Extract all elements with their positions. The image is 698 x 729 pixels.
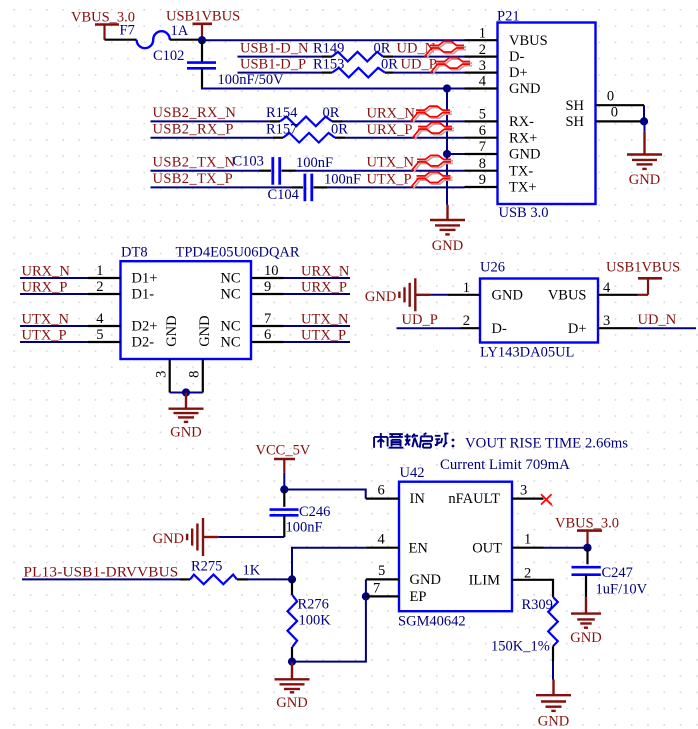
resistor R275	[190, 575, 237, 585]
svg-text:R276: R276	[298, 597, 329, 613]
svg-text:RX+: RX+	[509, 130, 537, 146]
resistor R149	[332, 52, 383, 62]
svg-text:3: 3	[154, 371, 170, 378]
svg-text:UTX_N: UTX_N	[301, 311, 349, 327]
P21 pin 8 TX-	[465, 156, 534, 179]
svg-text:5: 5	[378, 563, 385, 579]
svg-text:4: 4	[96, 311, 104, 327]
wire VCC_5V down to junction	[283, 473, 285, 490]
fuse F7	[137, 31, 170, 48]
wire UD_P to U26 pin 2	[397, 327, 461, 329]
svg-text:USB2_TX_P: USB2_TX_P	[153, 171, 234, 187]
svg-text:10: 10	[264, 263, 279, 279]
junction VBUS output node	[583, 544, 591, 552]
power port VBUS_3.0	[71, 10, 135, 40]
svg-text:D2+: D2+	[132, 319, 158, 335]
svg-text:R153: R153	[313, 56, 344, 72]
DT8 pin 8	[187, 359, 203, 393]
svg-text:F7: F7	[120, 23, 135, 39]
svg-text:R149: R149	[313, 40, 344, 56]
power port USB1VBUS	[166, 8, 240, 40]
svg-text:7: 7	[373, 580, 380, 596]
P21 pin 1 VBUS	[465, 25, 548, 48]
DT8 pin 7 NC	[220, 311, 283, 335]
svg-text:URX_P: URX_P	[367, 122, 413, 138]
svg-text:4: 4	[603, 280, 611, 296]
svg-text:C103: C103	[233, 154, 264, 170]
svg-text:2: 2	[479, 42, 486, 58]
svg-text:9: 9	[479, 172, 486, 188]
svg-text:9: 9	[264, 279, 271, 295]
U42 pin 5 GND	[366, 563, 441, 588]
ground GND at C247	[570, 597, 601, 646]
svg-text:nFAULT: nFAULT	[448, 491, 500, 507]
svg-text:GND: GND	[164, 315, 180, 346]
wire R276 bottom to U42 pin 7	[292, 596, 366, 661]
svg-text:GND: GND	[410, 572, 441, 588]
svg-text:0R: 0R	[331, 122, 348, 138]
svg-text:GND: GND	[509, 81, 540, 97]
capacitor C102 pins	[201, 40, 203, 62]
resistor R309	[548, 597, 558, 646]
svg-text:D-: D-	[492, 321, 507, 337]
U42 pin 6 IN	[366, 482, 426, 507]
svg-text:NC: NC	[220, 335, 240, 351]
wire USB1-D_P row	[238, 72, 323, 74]
svg-text:6: 6	[378, 482, 385, 498]
svg-text:NC: NC	[220, 271, 240, 287]
capacitor C247	[572, 548, 601, 597]
P21 pin 4 GND	[465, 74, 541, 97]
svg-text:7: 7	[264, 311, 271, 327]
svg-text:1uF/10V: 1uF/10V	[596, 582, 648, 598]
svg-text:GND: GND	[509, 147, 540, 163]
wire URX_P to DT8 pin 2	[20, 293, 88, 295]
svg-text:GND: GND	[365, 289, 396, 305]
wire DT8 pin 9 to URX_P	[284, 293, 351, 295]
svg-text:2: 2	[463, 313, 470, 329]
svg-text:U42: U42	[400, 465, 425, 481]
svg-text:GND: GND	[629, 172, 660, 188]
junction VCC node	[280, 485, 288, 493]
svg-text:3: 3	[603, 313, 610, 329]
junction EP pin	[362, 592, 370, 600]
svg-text:0R: 0R	[381, 56, 398, 72]
U42 pin 3 nFAULT	[448, 482, 543, 507]
svg-text:R275: R275	[191, 559, 222, 575]
wire PL13-USB1-DRVVBUS to R275	[22, 578, 180, 580]
P21 pin 3 D+	[465, 58, 528, 81]
P21 pin SH (bottom)	[565, 105, 644, 130]
svg-text:UTX_P: UTX_P	[367, 171, 412, 187]
svg-text:UD_P: UD_P	[401, 56, 437, 72]
svg-text:RX-: RX-	[509, 114, 534, 130]
svg-text:100K: 100K	[299, 613, 332, 629]
wire URX_N to DT8 pin 1	[20, 277, 88, 279]
wire R149 to P21 pin 2	[393, 56, 465, 58]
svg-text:VBUS_3.0: VBUS_3.0	[555, 515, 619, 531]
svg-text:Current Limit 709mA: Current Limit 709mA	[440, 457, 570, 473]
svg-text:1A: 1A	[171, 23, 189, 39]
IC U26 LY143DA05UL	[480, 279, 598, 343]
svg-text:URX_N: URX_N	[301, 263, 350, 279]
differential pair directive UD_P	[431, 58, 473, 75]
note: soft start annotation	[374, 433, 628, 451]
wire C246 to GND	[218, 536, 284, 538]
svg-text:0: 0	[607, 88, 614, 104]
capacitor C103	[273, 157, 280, 185]
power port VBUS_3.0 (output)	[555, 515, 619, 547]
wire GND to U26 pin 1	[431, 294, 448, 296]
wire USB2_TX_N row	[151, 170, 260, 172]
svg-text:8: 8	[479, 156, 486, 172]
svg-text:C102: C102	[153, 48, 184, 64]
differential pair directive URX_P	[413, 123, 455, 140]
svg-text:GND: GND	[276, 695, 307, 711]
IC U42 SGM40642	[399, 482, 512, 612]
P21 pin 5 RX-	[465, 107, 535, 130]
svg-text:8: 8	[187, 371, 203, 378]
capacitor C102	[187, 63, 216, 69]
svg-text:6: 6	[479, 123, 486, 139]
svg-text:6: 6	[264, 327, 271, 343]
wire SH pins join	[643, 105, 645, 121]
P21 pin 9 TX+	[465, 172, 537, 195]
svg-text:UTX_P: UTX_P	[301, 327, 346, 343]
node USB1VBUS junction	[198, 36, 206, 44]
ground GND at U26 pin 1	[365, 278, 431, 311]
svg-text:100nF/50V: 100nF/50V	[218, 72, 285, 88]
svg-text:P21: P21	[497, 9, 520, 25]
DT8 pin 4 D2+	[88, 311, 157, 335]
wire DT8 pin 10 to URX_N	[284, 277, 351, 279]
svg-text:D+: D+	[509, 65, 528, 81]
junction SH net	[640, 117, 648, 125]
svg-text:R157: R157	[266, 122, 297, 138]
wire DT8 pin 6 to UTX_P	[284, 341, 351, 343]
wire C103 to P21 pin 8	[296, 170, 465, 172]
svg-text:GND: GND	[153, 531, 184, 547]
wire R275 to EN node	[248, 578, 292, 580]
resistor R153	[332, 68, 385, 78]
svg-text:EN: EN	[409, 540, 429, 556]
svg-text:GND: GND	[570, 630, 601, 646]
svg-text:3: 3	[520, 482, 527, 498]
svg-text:ILIM: ILIM	[469, 573, 501, 589]
svg-text:EP: EP	[410, 589, 427, 605]
svg-text:5: 5	[96, 327, 103, 343]
svg-text:VBUS: VBUS	[509, 33, 548, 49]
connector P21	[498, 23, 596, 205]
U42 pin 7 EP	[366, 580, 427, 605]
U42 pin 4 EN	[366, 531, 429, 556]
wire node to P21 pin 1	[202, 39, 465, 41]
svg-text:0R: 0R	[374, 40, 391, 56]
junction R276 bottom	[288, 658, 296, 666]
P21 pin SH (top)	[565, 88, 644, 114]
differential pair directive UTX_P	[411, 172, 453, 189]
svg-text:1: 1	[463, 280, 470, 296]
svg-text:0: 0	[611, 105, 618, 121]
svg-text:TPD4E05U06DQAR: TPD4E05U06DQAR	[176, 245, 300, 261]
ground GND at P21 shield	[627, 121, 662, 188]
wire USB2_TX_P row	[151, 186, 293, 188]
DT8 pin 6 NC	[220, 327, 283, 351]
wire ILIM to R309	[544, 580, 554, 597]
U26 pin 1 GND	[448, 280, 523, 304]
GND bus vertical wire	[446, 89, 448, 205]
U26 pin 3 D+	[568, 313, 638, 337]
wire fuse to node USB1VBUS	[170, 39, 203, 41]
wire USB2_RX_N row	[151, 120, 271, 122]
wire OUT to VBUS node	[544, 547, 588, 549]
svg-text:IN: IN	[410, 491, 426, 507]
junction GND bus to P21 pin 7	[443, 150, 451, 158]
U26 pin 4 VBUS	[548, 280, 638, 304]
wire C104 to P21 pin 9	[327, 186, 465, 188]
svg-text:D+: D+	[568, 321, 587, 337]
svg-text:PL13-USB1-DRVVBUS: PL13-USB1-DRVVBUS	[24, 563, 179, 580]
svg-text:SH: SH	[565, 98, 584, 114]
svg-text:URX_P: URX_P	[301, 279, 347, 295]
P21 pin 6 RX+	[465, 123, 538, 146]
resistor R276	[291, 579, 293, 595]
ground GND below DT8	[169, 393, 204, 441]
svg-text:DT8: DT8	[121, 245, 148, 261]
no-ERC marker on pin 3	[541, 494, 553, 506]
svg-text:SH: SH	[565, 114, 584, 130]
svg-text:TX+: TX+	[509, 180, 537, 196]
DT8 pin 1 D1+	[88, 263, 157, 287]
svg-text:NC: NC	[220, 319, 240, 335]
svg-text:SGM40642: SGM40642	[398, 614, 466, 630]
DT8 pin 9 NC	[220, 279, 283, 303]
svg-text:USB 3.0: USB 3.0	[499, 205, 549, 221]
wire C102 bottom to P21 pin 4	[201, 68, 203, 88]
svg-text:USB1-D_P: USB1-D_P	[240, 56, 306, 72]
wire R154 to P21 pin 5	[342, 120, 465, 122]
svg-text:UD_P: UD_P	[402, 312, 438, 328]
DT8 pin 3	[154, 359, 170, 393]
wire U26 pin 3 to UD_N	[638, 327, 697, 329]
DT8 pin 5 D2-	[88, 327, 154, 351]
svg-text:4: 4	[378, 531, 386, 547]
svg-text:VBUS: VBUS	[548, 288, 587, 304]
svg-text:100nF: 100nF	[324, 171, 361, 187]
svg-text:D1-: D1-	[132, 287, 155, 303]
svg-text:URX_N: URX_N	[367, 105, 416, 121]
svg-text:GND: GND	[432, 238, 463, 254]
svg-text:U26: U26	[480, 260, 505, 276]
svg-text:5: 5	[479, 107, 486, 123]
differential pair directive URX_N	[411, 106, 453, 123]
svg-text:R154: R154	[266, 105, 298, 121]
svg-text:VOUT RISE TIME 2.66ms: VOUT RISE TIME 2.66ms	[465, 435, 628, 451]
ground GND at C246	[153, 518, 219, 556]
U26 pin 2 D-	[461, 313, 507, 337]
junction EN node	[288, 575, 296, 583]
svg-text:C246: C246	[299, 504, 330, 520]
svg-text:D2-: D2-	[132, 335, 155, 351]
power port VCC_5V	[256, 443, 311, 473]
svg-text:USB2_RX_N: USB2_RX_N	[153, 105, 237, 121]
svg-text:USB1-D_N: USB1-D_N	[240, 40, 309, 56]
wire R153 to P21 pin 3	[393, 72, 465, 74]
svg-text:GND: GND	[197, 315, 213, 346]
svg-text:GND: GND	[170, 425, 201, 441]
wire R309 to GND	[552, 661, 554, 680]
resistor R157	[283, 133, 335, 143]
svg-text:2: 2	[524, 566, 531, 582]
power port USB1VBUS at U26	[606, 260, 680, 295]
ground GND below R276	[275, 662, 310, 711]
wire R157 to P21 pin 6	[345, 137, 465, 139]
svg-text:100nF: 100nF	[286, 520, 323, 536]
svg-text:3: 3	[479, 58, 486, 74]
IC DT8 TPD4E05U06DQAR	[121, 261, 252, 359]
capacitor C246	[270, 490, 299, 538]
svg-text:USB1VBUS: USB1VBUS	[166, 8, 240, 24]
svg-text:LY143DA05UL: LY143DA05UL	[480, 345, 574, 361]
wire UTX_N to DT8 pin 4	[20, 325, 88, 327]
svg-text:GND: GND	[492, 288, 523, 304]
wire USB2_RX_P row	[151, 137, 274, 139]
svg-text:UD_N: UD_N	[638, 312, 677, 328]
svg-text:VCC_5V: VCC_5V	[256, 443, 311, 459]
svg-text:4: 4	[479, 74, 487, 90]
U42 pin 1 OUT	[472, 531, 543, 556]
svg-text:D-: D-	[509, 49, 524, 65]
junction at GND bus top	[443, 84, 451, 92]
svg-text:C104: C104	[268, 187, 300, 203]
wire pin5 to pin7	[365, 579, 367, 596]
svg-text:NC: NC	[220, 287, 240, 303]
wire VBUS_3.0 to fuse F7	[105, 39, 137, 41]
svg-text:USB2_TX_N: USB2_TX_N	[153, 155, 236, 171]
P21 pin 7 GND	[465, 139, 541, 162]
resistor R154	[280, 117, 332, 127]
svg-text:C247: C247	[602, 565, 633, 581]
svg-text:1K: 1K	[243, 563, 261, 579]
wire USB1-D_N row	[238, 56, 323, 58]
svg-text:USB1VBUS: USB1VBUS	[606, 260, 680, 276]
svg-text:UTX_N: UTX_N	[367, 155, 415, 171]
wire DT8 pins 3-8 join	[170, 392, 203, 394]
svg-text:100nF: 100nF	[296, 155, 333, 171]
resistor R276	[288, 595, 298, 647]
svg-text:1: 1	[479, 25, 486, 41]
svg-text:0R: 0R	[323, 105, 340, 121]
wire UTX_P to DT8 pin 5	[20, 341, 88, 343]
svg-text:OUT: OUT	[472, 540, 502, 556]
U42 pin 2 ILIM	[469, 566, 544, 589]
differential pair directive UTX_N	[412, 155, 454, 172]
svg-text:GND: GND	[538, 714, 569, 729]
differential pair directive UD_N	[425, 41, 467, 58]
svg-text:TX-: TX-	[509, 163, 533, 179]
svg-text:1: 1	[524, 531, 531, 547]
capacitor C104	[305, 174, 312, 202]
svg-text:150K_1%: 150K_1%	[491, 638, 550, 654]
svg-text:USB2_RX_P: USB2_RX_P	[153, 122, 234, 138]
svg-text:7: 7	[479, 139, 486, 155]
P21 pin 2 D-	[465, 42, 525, 65]
svg-text:R309: R309	[522, 597, 553, 613]
ground GND below R309	[536, 680, 571, 729]
svg-text:1: 1	[96, 263, 103, 279]
svg-text:D1+: D1+	[132, 271, 158, 287]
DT8 pin 10 NC	[220, 263, 283, 287]
wire DT8 pin 7 to UTX_N	[284, 325, 351, 327]
wire EN node to U42 pin 4	[292, 548, 366, 580]
DT8 pin 2 D1-	[88, 279, 154, 303]
wire VCC node to U42 pin 6	[284, 490, 365, 499]
svg-text:2: 2	[96, 279, 103, 295]
junction DT8 ground	[182, 388, 190, 396]
ground GND below P21	[430, 205, 465, 254]
